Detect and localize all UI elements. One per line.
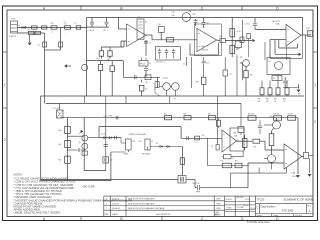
svg-text:C40 10: C40 10 bbox=[89, 30, 95, 32]
svg-text:R40 10K: R40 10K bbox=[248, 114, 254, 116]
svg-text:MODEL: MODEL bbox=[226, 199, 232, 201]
svg-text:SCHEMATIC OF 0000B: SCHEMATIC OF 0000B bbox=[284, 198, 313, 202]
svg-text:R1: R1 bbox=[28, 29, 30, 31]
svg-text:R60: R60 bbox=[59, 130, 62, 132]
svg-text:571-260: 571-260 bbox=[250, 208, 256, 210]
svg-text:R30: R30 bbox=[196, 82, 199, 84]
svg-text:R22: R22 bbox=[208, 114, 211, 116]
svg-text:C30: C30 bbox=[202, 135, 205, 137]
svg-text:R21: R21 bbox=[184, 114, 187, 116]
svg-text:C40: C40 bbox=[172, 12, 175, 14]
svg-text:S 1 of 1: S 1 of 1 bbox=[295, 215, 303, 217]
svg-text:Q7: Q7 bbox=[79, 133, 81, 135]
svg-text:4-19-93: 4-19-93 bbox=[112, 199, 120, 201]
svg-text:L2: L2 bbox=[75, 23, 77, 25]
svg-text:R52: R52 bbox=[274, 98, 277, 100]
svg-text:R61: R61 bbox=[59, 144, 62, 146]
svg-text:D4: D4 bbox=[156, 143, 158, 145]
svg-text:Rev: Rev bbox=[307, 206, 311, 208]
svg-text:CHUTE LND LEAL: CHUTE LND LEAL bbox=[129, 133, 147, 136]
svg-text:R71: R71 bbox=[235, 160, 238, 162]
svg-text:R16: R16 bbox=[254, 146, 257, 148]
svg-text:L4: L4 bbox=[195, 142, 197, 144]
svg-text:Q8: Q8 bbox=[79, 142, 81, 144]
svg-text:C49 10: C49 10 bbox=[245, 23, 251, 25]
svg-text:10.1 50V: 10.1 50V bbox=[53, 108, 61, 110]
svg-text:SEE NOTE FOR CHANGES: SEE NOTE FOR CHANGES bbox=[128, 202, 155, 205]
svg-text:U4B: U4B bbox=[233, 133, 236, 135]
svg-text:C20: C20 bbox=[110, 160, 113, 162]
svg-text:C6: C6 bbox=[149, 43, 151, 45]
svg-text:Q40: Q40 bbox=[172, 15, 175, 17]
svg-text:SEE NOTE FOR CHANGES: SEE NOTE FOR CHANGES bbox=[128, 198, 155, 201]
svg-text:10-06-92: 10-06-92 bbox=[112, 208, 121, 210]
svg-text:.01: .01 bbox=[107, 59, 109, 61]
svg-text:D2 D3: D2 D3 bbox=[101, 133, 105, 135]
svg-text:Q4: Q4 bbox=[240, 57, 242, 59]
svg-text:DESCRIPTION: DESCRIPTION bbox=[156, 214, 171, 216]
svg-text:TOOL: TOOL bbox=[245, 199, 251, 201]
svg-text:Scale: Scale bbox=[257, 215, 263, 217]
svg-text:C2: C2 bbox=[65, 24, 67, 26]
svg-text:SEE NOTE FOR CHANGES ON PAGE: SEE NOTE FOR CHANGES ON PAGE bbox=[128, 207, 165, 210]
svg-text:WIND: WIND bbox=[124, 153, 130, 155]
svg-text:11: 11 bbox=[149, 63, 151, 65]
svg-text:UMLBL DELETE AND R3L7 ADDED: UMLBL DELETE AND R3L7 ADDED bbox=[14, 210, 61, 214]
svg-text:TP7: TP7 bbox=[174, 99, 177, 101]
svg-text:10K: 10K bbox=[283, 101, 286, 103]
svg-text:571-2600: 571-2600 bbox=[237, 207, 244, 209]
svg-text:D5: D5 bbox=[273, 78, 275, 80]
svg-text:DATE: DATE bbox=[112, 213, 118, 216]
svg-text:TP3: TP3 bbox=[51, 23, 54, 25]
svg-text:R7: R7 bbox=[145, 89, 147, 91]
svg-text:1: 1 bbox=[4, 83, 6, 87]
svg-text:A20: A20 bbox=[193, 13, 196, 16]
svg-text:10K: 10K bbox=[266, 101, 269, 103]
svg-text:LWO-REV: LWO-REV bbox=[236, 197, 244, 199]
svg-text:+: + bbox=[96, 21, 97, 23]
svg-text:.05: .05 bbox=[232, 157, 234, 159]
svg-text:TURN: TURN bbox=[227, 207, 232, 209]
svg-text:TP5: TP5 bbox=[229, 74, 232, 76]
svg-text:R20: R20 bbox=[164, 114, 167, 116]
svg-text:C44: C44 bbox=[158, 24, 161, 26]
svg-text:PLBC: PLBC bbox=[243, 205, 249, 207]
svg-text:4-16-93: 4-16-93 bbox=[112, 203, 120, 205]
svg-text:GPS: GPS bbox=[216, 203, 221, 205]
svg-text:C8 .1: C8 .1 bbox=[96, 58, 100, 60]
svg-text:C42: C42 bbox=[206, 23, 209, 25]
svg-text:GPS: GPS bbox=[216, 199, 221, 201]
svg-text:C50 C51 C2: C50 C51 C2 bbox=[156, 62, 165, 64]
svg-text:RETURN: RETURN bbox=[142, 153, 151, 155]
svg-text:C18 .1 50V: C18 .1 50V bbox=[104, 116, 113, 118]
svg-text:C45: C45 bbox=[206, 63, 209, 65]
svg-text:C4: C4 bbox=[183, 64, 185, 66]
svg-text:R48: R48 bbox=[250, 75, 253, 77]
svg-text:1: 1 bbox=[65, 31, 66, 33]
svg-text:Date:: Date: bbox=[273, 214, 278, 217]
svg-text:+: + bbox=[110, 154, 111, 156]
svg-text:FFNF: FFNF bbox=[196, 192, 200, 194]
svg-text:TITLE:-: TITLE:- bbox=[257, 198, 266, 202]
svg-text:R44: R44 bbox=[220, 36, 223, 38]
svg-text:+: + bbox=[104, 63, 105, 65]
svg-text:LM741A: LM741A bbox=[201, 49, 208, 52]
svg-text:K1: K1 bbox=[269, 61, 271, 63]
svg-text:C9: C9 bbox=[149, 70, 151, 72]
svg-text:Q2 Q3: Q2 Q3 bbox=[163, 78, 168, 80]
svg-text:R4: R4 bbox=[237, 140, 239, 142]
svg-text:+WO CURR: +WO CURR bbox=[82, 187, 95, 189]
svg-text:INPUT: INPUT bbox=[10, 36, 17, 38]
svg-text:R42 1K: R42 1K bbox=[288, 114, 293, 116]
svg-text:2: 2 bbox=[4, 138, 6, 142]
svg-text:UNF FOR: UNF FOR bbox=[193, 183, 201, 185]
svg-text:C3: C3 bbox=[38, 44, 40, 46]
svg-text:+: + bbox=[288, 80, 289, 82]
svg-text:Dwg Number:-: Dwg Number:- bbox=[261, 204, 278, 208]
svg-text:R41 10K: R41 10K bbox=[274, 114, 280, 116]
svg-text:L1: L1 bbox=[52, 31, 54, 33]
svg-text:U1: U1 bbox=[145, 22, 147, 24]
svg-text:R51: R51 bbox=[266, 98, 269, 100]
svg-text:1: 1 bbox=[314, 83, 316, 87]
svg-text:2: 2 bbox=[314, 120, 316, 124]
svg-text:DWN BY: DWN BY bbox=[215, 215, 221, 217]
svg-text:R53: R53 bbox=[283, 98, 286, 100]
svg-text:141-B: 141-B bbox=[292, 176, 298, 178]
svg-text:TP10: TP10 bbox=[306, 28, 310, 30]
svg-text:R62: R62 bbox=[59, 160, 62, 162]
svg-text:GPS: GPS bbox=[216, 208, 221, 210]
svg-text:10K: 10K bbox=[258, 101, 261, 103]
svg-text:+V2B: +V2B bbox=[233, 135, 237, 137]
svg-text:C6: C6 bbox=[211, 146, 213, 148]
svg-text:R70: R70 bbox=[221, 160, 224, 162]
svg-text:C41 .1: C41 .1 bbox=[103, 30, 108, 32]
svg-text:R31: R31 bbox=[298, 94, 301, 96]
svg-text:1K: 1K bbox=[274, 101, 276, 103]
svg-text:R6: R6 bbox=[146, 82, 148, 84]
svg-text:HP1-H: HP1-H bbox=[140, 63, 146, 65]
svg-text:R50: R50 bbox=[258, 98, 261, 100]
svg-text:V2: V2 bbox=[151, 141, 153, 143]
svg-text:C10: C10 bbox=[107, 56, 110, 58]
svg-text:S DATE unknown: S DATE unknown bbox=[247, 220, 270, 224]
svg-text:STK-2600: STK-2600 bbox=[282, 209, 294, 213]
